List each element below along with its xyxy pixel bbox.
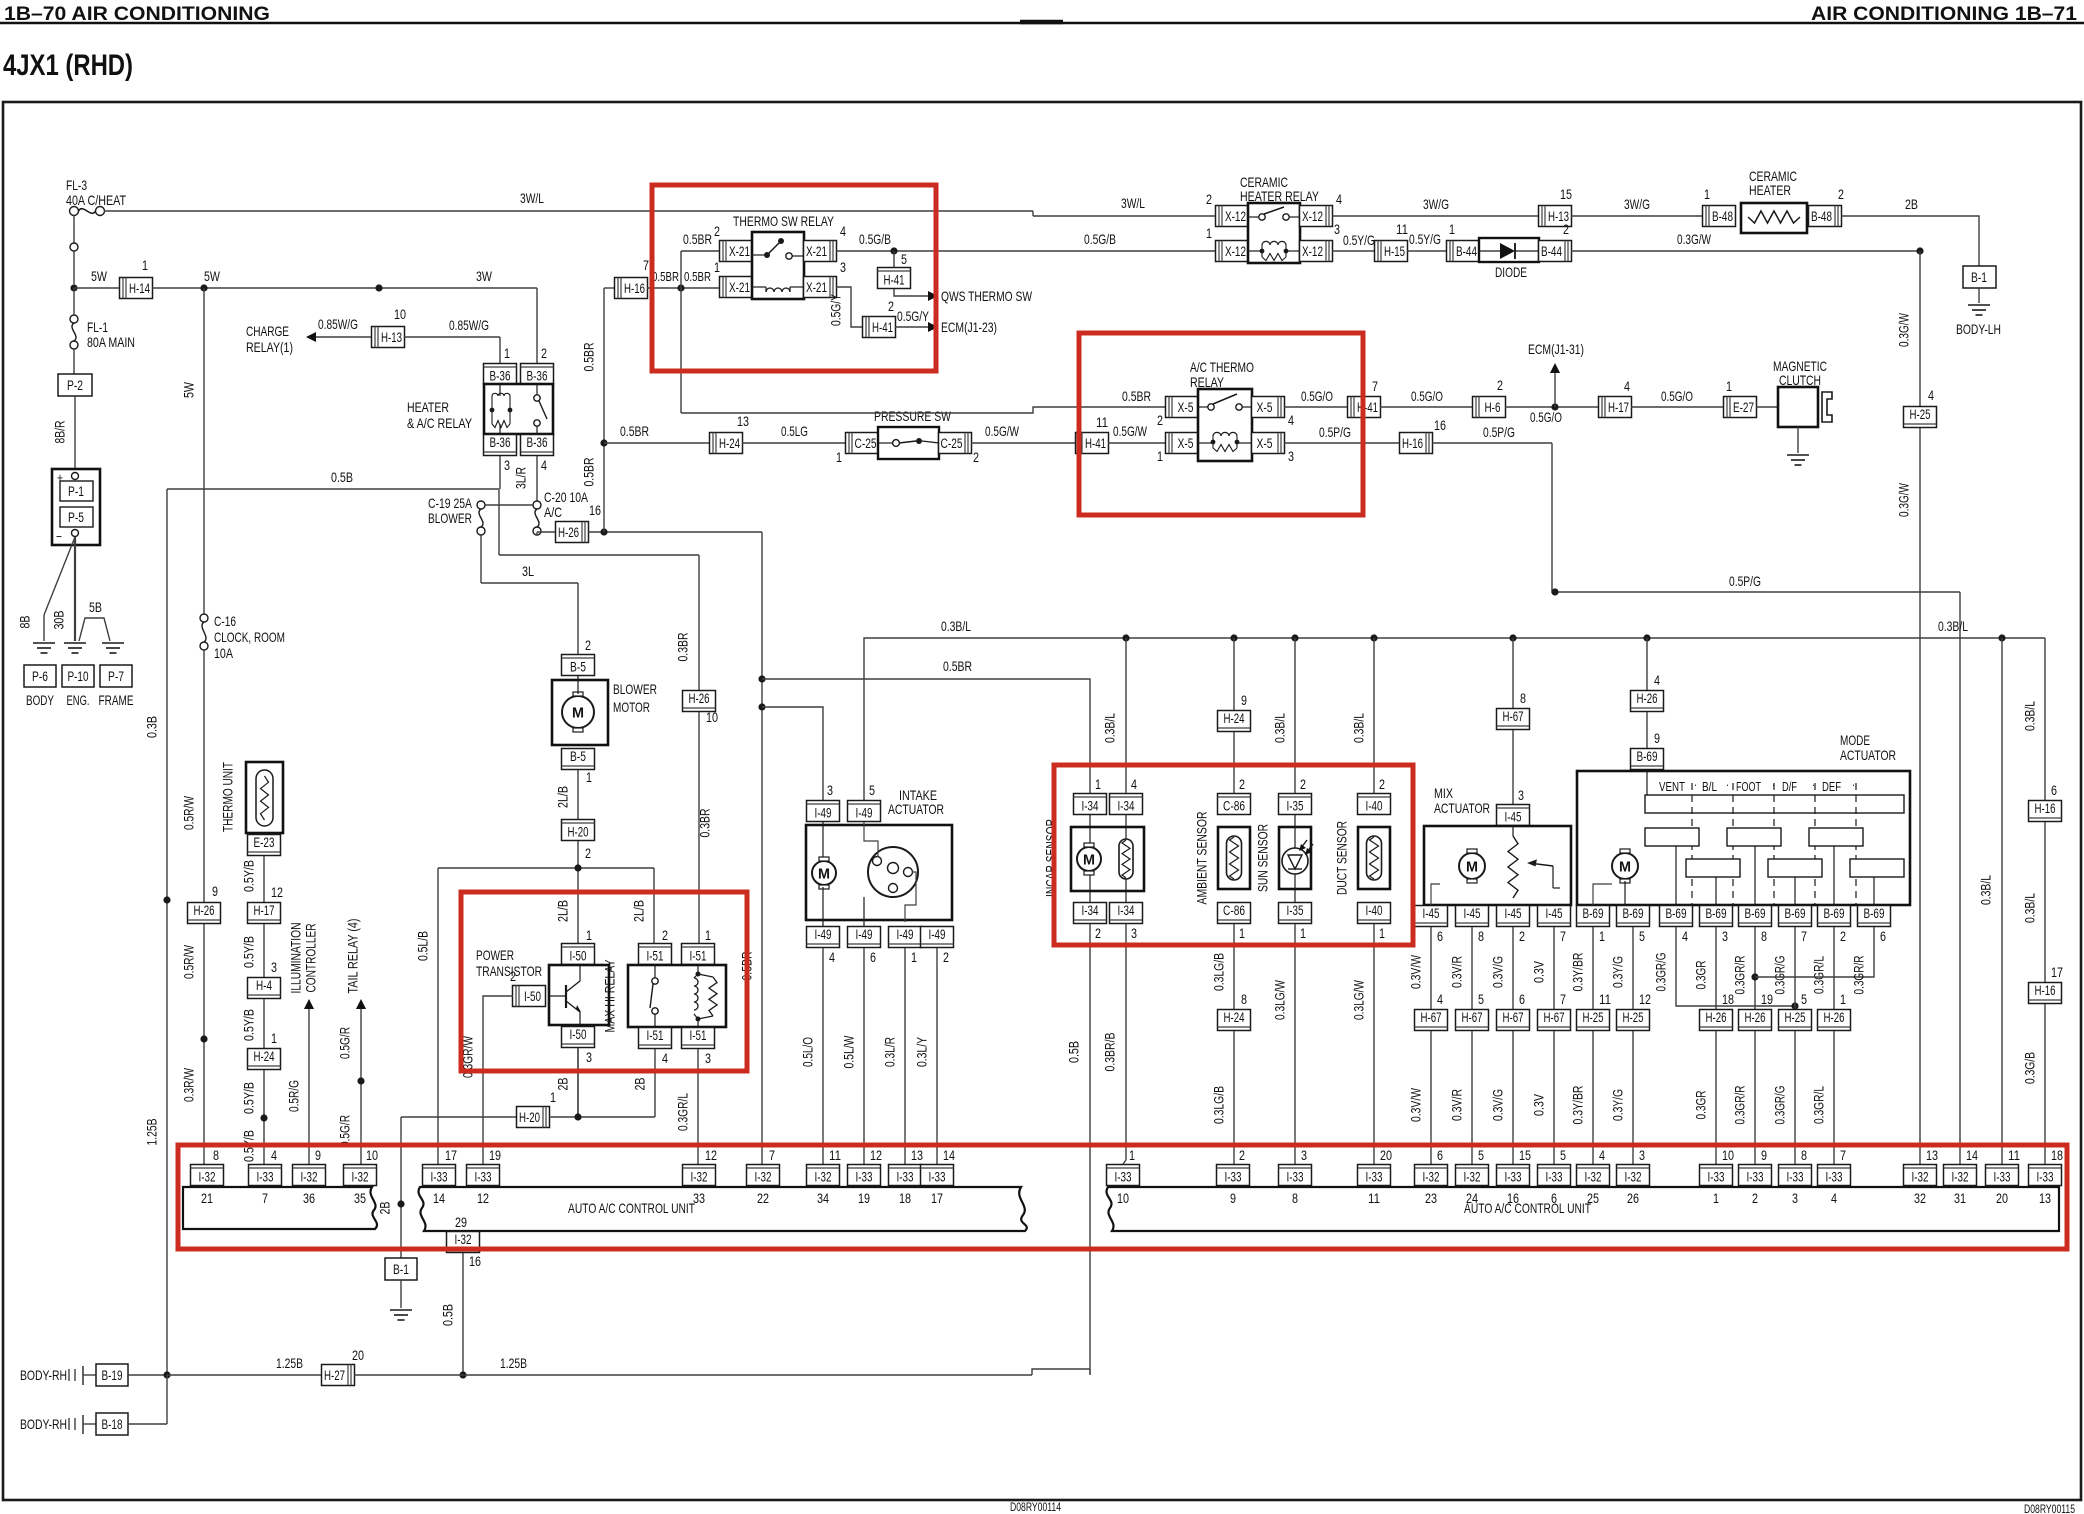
svg-text:2: 2 [714, 223, 720, 239]
svg-text:0.5BR: 0.5BR [652, 269, 679, 284]
svg-text:0.5Y/B: 0.5Y/B [241, 1082, 257, 1114]
svg-text:C-20 10A: C-20 10A [544, 489, 588, 505]
svg-text:8: 8 [1761, 928, 1767, 944]
connector C-25 pin 1 [846, 433, 879, 454]
connector I-51 pin 2 [639, 944, 672, 965]
connector I-49 pin 3 [807, 801, 840, 822]
svg-text:0.5BR: 0.5BR [683, 231, 712, 247]
svg-text:2: 2 [510, 968, 516, 984]
svg-text:AUTO A/C CONTROL UNIT: AUTO A/C CONTROL UNIT [568, 1200, 695, 1216]
wire row y=868 [438, 867, 654, 869]
svg-text:0.5G/O: 0.5G/O [1661, 388, 1693, 404]
svg-text:CLOCK, ROOM: CLOCK, ROOM [214, 629, 285, 645]
svg-text:10: 10 [706, 709, 718, 725]
svg-text:P-1: P-1 [68, 484, 84, 499]
svg-text:I-33: I-33 [1708, 1170, 1725, 1185]
svg-text:H-16: H-16 [2035, 983, 2056, 998]
svg-text:0.3GR/L: 0.3GR/L [675, 1093, 691, 1131]
relay switch [764, 252, 770, 258]
connector H-16 pin 6 [2029, 801, 2062, 822]
connector H-41 pin 7 [1348, 397, 1381, 418]
blower motor M [562, 696, 594, 728]
mode dashed guides [1691, 783, 1693, 905]
svg-text:36: 36 [303, 1190, 315, 1206]
connector H-20 pin 1 [517, 1107, 550, 1128]
connector B-44 pin 2 [1539, 241, 1572, 262]
svg-text:3: 3 [271, 959, 277, 975]
svg-text:9: 9 [1230, 1190, 1236, 1206]
connector I-32 pin 8 / unit pin 21 [191, 1165, 224, 1186]
svg-text:X-5: X-5 [1257, 400, 1273, 415]
svg-text:1: 1 [1713, 1190, 1719, 1206]
svg-text:3: 3 [1131, 925, 1137, 941]
svg-text:0.3L/R: 0.3L/R [882, 1037, 898, 1067]
svg-text:1: 1 [504, 345, 510, 361]
svg-text:X-21: X-21 [806, 280, 827, 295]
svg-text:11: 11 [1396, 221, 1408, 237]
svg-text:H-41: H-41 [884, 273, 905, 288]
svg-text:19: 19 [858, 1190, 870, 1206]
svg-text:30B: 30B [51, 611, 67, 630]
svg-text:1: 1 [271, 1030, 277, 1046]
svg-text:I-49: I-49 [856, 806, 873, 821]
connector I-32 pin 10 / unit pin 35 [344, 1165, 377, 1186]
svg-text:H-15: H-15 [1384, 244, 1405, 259]
connector X-12 pin 2 [1216, 206, 1249, 227]
svg-text:BLOWER: BLOWER [428, 510, 472, 526]
svg-text:1: 1 [911, 949, 917, 965]
svg-text:0.3GR/G: 0.3GR/G [1772, 1086, 1788, 1125]
svg-text:DIODE: DIODE [1495, 264, 1527, 280]
node 5W junction [70, 284, 77, 291]
svg-text:C-86: C-86 [1223, 799, 1245, 814]
svg-text:H-13: H-13 [381, 330, 402, 345]
svg-text:I-33: I-33 [1287, 1170, 1304, 1185]
svg-text:H-16: H-16 [1402, 436, 1423, 451]
wires intake down [822, 948, 824, 1164]
connector I-49 pin 4 [807, 927, 840, 948]
diode [1479, 238, 1539, 262]
svg-text:25: 25 [1587, 1190, 1599, 1206]
connector I-32 pin 3 / unit pin 26 [1617, 1165, 1650, 1186]
svg-text:6: 6 [870, 949, 876, 965]
connector H-41 pin 11 [1076, 433, 1109, 454]
ground body [33, 642, 55, 644]
svg-text:3: 3 [586, 1049, 592, 1065]
ambient resistor [1227, 836, 1242, 880]
svg-text:4: 4 [1654, 672, 1660, 688]
svg-text:12: 12 [1639, 991, 1651, 1007]
thermo unit [246, 762, 283, 833]
svg-text:B-69: B-69 [1824, 906, 1845, 921]
svg-text:4: 4 [662, 1050, 668, 1066]
connector X-5 pin 1 [1166, 433, 1199, 454]
svg-text:3W/L: 3W/L [1121, 195, 1145, 211]
wire 0.5R/W down [203, 650, 205, 902]
svg-text:BODY-RH: BODY-RH [20, 1416, 67, 1432]
connector B-36 pin 4 [521, 435, 554, 456]
connector C-86 pin 1 [1218, 903, 1251, 924]
fuse C-20 10A a/c [533, 501, 541, 509]
svg-text:M: M [1619, 859, 1631, 876]
connector X-5 pin 4 [1252, 397, 1285, 418]
connector I-50 pin 2 [513, 986, 546, 1007]
wire 0.3GR/W from I-50 pin2 [483, 996, 513, 1164]
fuse C-19 25A blower [477, 501, 485, 509]
svg-text:I-49: I-49 [929, 927, 946, 942]
svg-text:3: 3 [1334, 221, 1340, 237]
svg-text:H-14: H-14 [129, 281, 150, 296]
svg-text:0.85W/G: 0.85W/G [449, 317, 489, 333]
svg-text:HEATER: HEATER [407, 399, 449, 415]
svg-text:1: 1 [1840, 991, 1846, 1007]
svg-text:9: 9 [1241, 692, 1247, 708]
connector H-25 pin 4 [1904, 407, 1937, 428]
svg-text:1.25B: 1.25B [144, 1119, 160, 1146]
svg-text:6: 6 [1551, 1190, 1557, 1206]
svg-text:31: 31 [1954, 1190, 1966, 1206]
intake actuator body [806, 825, 952, 920]
svg-text:H-26: H-26 [1745, 1010, 1766, 1025]
svg-text:21: 21 [201, 1190, 213, 1206]
svg-text:2: 2 [1300, 776, 1306, 792]
svg-text:THERMO UNIT: THERMO UNIT [220, 762, 236, 832]
svg-text:AUTO A/C CONTROL UNIT: AUTO A/C CONTROL UNIT [1464, 1200, 1591, 1216]
relay coil and resistor [697, 965, 699, 974]
svg-text:0.3G/B: 0.3G/B [2022, 1052, 2038, 1084]
svg-text:ENG.: ENG. [67, 693, 90, 708]
svg-text:15: 15 [1519, 1147, 1531, 1163]
svg-text:0.3R/W: 0.3R/W [181, 1067, 197, 1102]
svg-text:H-16: H-16 [2035, 801, 2056, 816]
svg-text:5: 5 [1639, 928, 1645, 944]
svg-text:CONTROLLER: CONTROLLER [303, 924, 319, 993]
wire 0.5B incar junction [1089, 1369, 1091, 1375]
svg-text:0.5B: 0.5B [1066, 1041, 1082, 1063]
connector I-32 pin 4 / unit pin 25 [1577, 1165, 1610, 1186]
svg-text:2L/B: 2L/B [555, 786, 571, 808]
svg-text:29: 29 [455, 1214, 467, 1230]
relay body a/c thermo relay [1198, 389, 1252, 461]
connector C-25 pin 2 [939, 433, 972, 454]
connector H-26 pin 4 [1631, 691, 1664, 712]
connector I-33 pin 13 / unit pin 18 [889, 1165, 922, 1186]
svg-text:2: 2 [1838, 186, 1844, 202]
svg-text:0.5G/O: 0.5G/O [1301, 388, 1333, 404]
svg-text:I-33: I-33 [929, 1170, 946, 1185]
svg-text:X-12: X-12 [1225, 209, 1246, 224]
svg-text:0.3LG/B: 0.3LG/B [1211, 953, 1227, 991]
svg-text:1: 1 [586, 769, 592, 785]
svg-text:I-32: I-32 [1625, 1170, 1642, 1185]
svg-text:X-21: X-21 [729, 244, 750, 259]
connector I-32 pin 12 / unit pin 33 [683, 1165, 716, 1186]
ground body-lh [1968, 304, 1990, 306]
svg-text:3W/G: 3W/G [1423, 196, 1449, 212]
svg-text:0.5L/W: 0.5L/W [841, 1035, 857, 1069]
svg-text:I-32: I-32 [1585, 1170, 1602, 1185]
wire from C-20 to H-26 [536, 532, 538, 535]
svg-text:C-19 25A: C-19 25A [428, 495, 472, 511]
wire 1.25B [167, 1374, 322, 1376]
svg-text:2B: 2B [377, 1202, 393, 1215]
svg-text:ECM(J1-31): ECM(J1-31) [1528, 341, 1584, 357]
max hi relay body [628, 965, 726, 1027]
svg-text:I-45: I-45 [1505, 906, 1522, 921]
svg-text:5W: 5W [91, 268, 108, 284]
connector H-67 pin 5 [1456, 1010, 1489, 1031]
svg-text:0.3B/L: 0.3B/L [2022, 701, 2038, 731]
svg-text:14: 14 [1966, 1147, 1978, 1163]
svg-text:H-24: H-24 [1224, 711, 1245, 726]
svg-text:H-26: H-26 [1706, 1010, 1727, 1025]
connector I-33 pin 4 / unit pin 7 [249, 1165, 282, 1186]
connector I-35 pin 2 [1279, 794, 1312, 815]
svg-text:BODY: BODY [26, 693, 54, 708]
wire FL-3 to junction [73, 215, 75, 243]
ground B-1 [390, 1309, 412, 1311]
svg-text:8: 8 [1520, 690, 1526, 706]
svg-text:20: 20 [1380, 1147, 1392, 1163]
svg-text:C-86: C-86 [1223, 903, 1245, 918]
connector I-45 pin 7 [1538, 906, 1571, 927]
svg-text:I-33: I-33 [475, 1170, 492, 1185]
svg-text:X-12: X-12 [1225, 244, 1246, 259]
wire 0.5BR pressure row [604, 442, 710, 444]
relay switch [1208, 404, 1214, 410]
svg-text:−: − [56, 529, 62, 544]
svg-text:10: 10 [1722, 1147, 1734, 1163]
svg-text:12: 12 [870, 1147, 882, 1163]
svg-text:ACTUATOR: ACTUATOR [1840, 747, 1896, 763]
connector H-24 pin 9 [1218, 711, 1251, 732]
svg-text:1: 1 [586, 927, 592, 943]
svg-text:0.3GR/G: 0.3GR/G [1772, 956, 1788, 995]
svg-text:X-5: X-5 [1178, 400, 1194, 415]
svg-text:0.3LG/B: 0.3LG/B [1211, 1086, 1227, 1124]
connector I-33 pin 9 / unit pin 2 [1739, 1165, 1772, 1186]
svg-text:1: 1 [1095, 776, 1101, 792]
svg-text:I-34: I-34 [1118, 799, 1135, 814]
svg-text:0.3B/L: 0.3B/L [941, 618, 971, 634]
svg-text:0.3GR/L: 0.3GR/L [1811, 956, 1827, 994]
svg-text:ACTUATOR: ACTUATOR [1434, 800, 1490, 816]
svg-text:22: 22 [757, 1190, 769, 1206]
connector I-33 pin 14 / unit pin 17 [921, 1165, 954, 1186]
svg-text:19: 19 [1761, 991, 1773, 1007]
svg-text:0.5BR: 0.5BR [620, 423, 649, 439]
header rule [0, 22, 2084, 24]
power transistor body [549, 965, 609, 1025]
connector B-44 pin 1 [1447, 241, 1480, 262]
svg-text:X-5: X-5 [1257, 436, 1273, 451]
svg-text:5B: 5B [89, 599, 102, 615]
svg-text:2: 2 [1563, 221, 1569, 237]
svg-text:0.5G/B: 0.5G/B [1084, 231, 1116, 247]
svg-text:0.5B: 0.5B [331, 469, 353, 485]
svg-text:0.3B/L: 0.3B/L [2022, 893, 2038, 923]
svg-text:0.3L/Y: 0.3L/Y [914, 1037, 930, 1067]
auto a/c control unit section B [418, 1187, 1026, 1231]
svg-text:34: 34 [817, 1190, 829, 1206]
wire 0.3B/L duct column [1373, 638, 1375, 793]
svg-text:5W: 5W [181, 381, 197, 398]
svg-text:0.5R/W: 0.5R/W [181, 795, 197, 830]
svg-text:7: 7 [1560, 991, 1566, 1007]
connector X-12 pin 4 [1300, 206, 1333, 227]
connector B-36 pin 3 [484, 435, 517, 456]
svg-text:8B/R: 8B/R [52, 421, 68, 444]
svg-text:H-26: H-26 [1637, 691, 1658, 706]
wire 0.5BR right of H-26 [761, 532, 763, 1164]
svg-text:2: 2 [1752, 1190, 1758, 1206]
svg-text:0.5Y/B: 0.5Y/B [241, 1009, 257, 1041]
svg-text:3: 3 [1301, 1147, 1307, 1163]
svg-text:H-26: H-26 [558, 525, 579, 540]
svg-text:6: 6 [2051, 782, 2057, 798]
svg-text:H-25: H-25 [1785, 1010, 1806, 1025]
svg-text:4: 4 [840, 223, 846, 239]
svg-text:16: 16 [469, 1253, 481, 1269]
clutch ground [1797, 427, 1799, 453]
svg-text:P-2: P-2 [67, 378, 83, 393]
connector I-49 pin 6 [848, 927, 881, 948]
svg-text:B-36: B-36 [490, 369, 511, 384]
svg-text:2: 2 [1379, 776, 1385, 792]
svg-text:I-33: I-33 [1115, 1170, 1132, 1185]
mode internal wires [1675, 846, 1677, 905]
svg-text:MIX: MIX [1434, 785, 1454, 801]
svg-text:3W: 3W [476, 268, 493, 284]
connector H-25 pin 11 [1577, 1010, 1610, 1031]
svg-text:P-5: P-5 [68, 510, 84, 525]
svg-text:TAIL RELAY (4): TAIL RELAY (4) [345, 919, 361, 994]
svg-text:0.3V/W: 0.3V/W [1408, 1087, 1424, 1122]
svg-text:PRESSURE SW: PRESSURE SW [874, 408, 952, 424]
svg-text:M: M [1083, 852, 1095, 869]
wire to QWS thermo sw [894, 289, 930, 296]
connector I-33 pin 3 / unit pin 8 [1279, 1165, 1312, 1186]
connector B-36 pin 2 [521, 364, 554, 385]
connector I-45 pin 6 [1415, 906, 1448, 927]
svg-text:THERMO SW RELAY: THERMO SW RELAY [733, 213, 834, 229]
svg-text:H-17: H-17 [254, 903, 275, 918]
svg-text:H-17: H-17 [1608, 400, 1629, 415]
svg-text:3: 3 [827, 782, 833, 798]
svg-text:I-35: I-35 [1287, 799, 1304, 814]
svg-text:2B: 2B [555, 1078, 571, 1091]
wire 0.5B incar down to ground wire [1089, 924, 1091, 1374]
wire 2B to B-1 ground [400, 1117, 402, 1258]
svg-text:5: 5 [869, 782, 875, 798]
svg-text:4: 4 [1288, 412, 1294, 428]
svg-text:I-33: I-33 [897, 1170, 914, 1185]
svg-text:B-44: B-44 [1456, 244, 1477, 259]
relay coil [766, 288, 790, 292]
svg-text:0.5B: 0.5B [440, 1304, 456, 1326]
connector X-5 pin 2 [1166, 397, 1199, 418]
svg-text:2: 2 [1157, 412, 1163, 428]
svg-text:H-41: H-41 [1357, 400, 1378, 415]
svg-text:I-32: I-32 [691, 1170, 708, 1185]
svg-text:+: + [57, 470, 63, 485]
svg-text:0.3B/L: 0.3B/L [1351, 713, 1367, 743]
svg-text:1: 1 [714, 259, 720, 275]
svg-text:1: 1 [1300, 925, 1306, 941]
svg-text:2: 2 [1206, 191, 1212, 207]
relay coil [1212, 436, 1214, 448]
connector I-33 pin 12 / unit pin 19 [848, 1165, 881, 1186]
svg-text:1: 1 [1449, 221, 1455, 237]
svg-text:I-32: I-32 [301, 1170, 318, 1185]
svg-text:H-20: H-20 [519, 1110, 540, 1125]
svg-text:8: 8 [1801, 1147, 1807, 1163]
svg-text:0.5Y/G: 0.5Y/G [1343, 232, 1375, 248]
svg-text:B-69: B-69 [1583, 906, 1604, 921]
svg-text:4: 4 [1624, 378, 1630, 394]
battery ground wires [44, 537, 75, 615]
svg-text:VENT: VENT [1659, 779, 1685, 794]
svg-text:5: 5 [1478, 991, 1484, 1007]
svg-text:20: 20 [352, 1347, 364, 1363]
svg-text:3W/G: 3W/G [1624, 196, 1650, 212]
svg-text:1: 1 [1726, 378, 1732, 394]
svg-text:0.3Y/G: 0.3Y/G [1610, 1089, 1626, 1121]
svg-text:I-32: I-32 [1423, 1170, 1440, 1185]
connector I-32 pin 9 / unit pin 36 [293, 1165, 326, 1186]
connector H-26 pin 18 [1700, 1010, 1733, 1031]
svg-text:2: 2 [1095, 925, 1101, 941]
svg-text:16: 16 [589, 502, 601, 518]
connector I-45 pin 2 [1497, 906, 1530, 927]
wire 2B from pin4 [654, 1049, 656, 1117]
mode actuator body [1577, 771, 1910, 905]
svg-text:H-41: H-41 [872, 320, 893, 335]
svg-text:I-45: I-45 [1464, 906, 1481, 921]
svg-text:DUCT SENSOR: DUCT SENSOR [1334, 821, 1350, 895]
wire 0.3B/L to H-67 pin 8 [1512, 638, 1514, 708]
svg-text:X-5: X-5 [1178, 436, 1194, 451]
wire 5W row [74, 287, 120, 289]
svg-text:I-32: I-32 [815, 1170, 832, 1185]
connector I-33 pin 19 / unit pin 12 [467, 1165, 500, 1186]
red highlight box - thermo sw relay [652, 185, 936, 371]
svg-text:2: 2 [585, 637, 591, 653]
svg-text:I-45: I-45 [1423, 906, 1440, 921]
wire 0.5B from relay pin 3 [499, 456, 501, 489]
connector E-23 [248, 835, 281, 856]
svg-text:9: 9 [315, 1147, 321, 1163]
connector I-32 pin 13 / unit pin 32 [1904, 1165, 1937, 1186]
svg-text:7: 7 [1372, 378, 1378, 394]
connector H-67 pin 6 [1497, 1010, 1530, 1031]
svg-text:H-26: H-26 [1824, 1010, 1845, 1025]
connector H-17 pin 4 [1599, 397, 1632, 418]
connector H-26 pin 16 [556, 522, 589, 543]
svg-text:A/C THERMO: A/C THERMO [1190, 359, 1254, 375]
duct resistor [1367, 836, 1382, 880]
wire 0.3BR/B incar pin3 down [1125, 924, 1127, 1160]
svg-text:I-33: I-33 [1787, 1170, 1804, 1185]
svg-text:0.5G/O: 0.5G/O [1411, 388, 1443, 404]
incar resistor [1119, 839, 1133, 879]
svg-text:1: 1 [550, 1089, 556, 1105]
svg-text:H-41: H-41 [1085, 436, 1106, 451]
connector H-26 pin 1 [1818, 1010, 1851, 1031]
wire 0.5BR vertical [603, 288, 605, 532]
svg-text:H-67: H-67 [1503, 1010, 1524, 1025]
svg-text:A/C: A/C [544, 504, 562, 520]
